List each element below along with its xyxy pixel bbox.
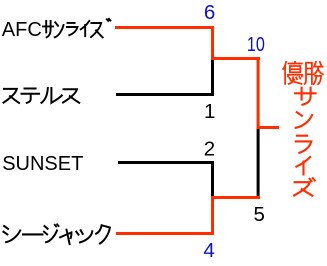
svg-text:10: 10: [247, 33, 265, 56]
svg-text:SUNSET: SUNSET: [2, 153, 83, 175]
svg-text:AFC: AFC: [2, 19, 42, 41]
svg-text:2: 2: [204, 138, 215, 161]
svg-text:1: 1: [204, 100, 215, 123]
svg-text:5: 5: [253, 203, 264, 226]
svg-text:4: 4: [203, 239, 214, 261]
svg-text:6: 6: [204, 1, 215, 24]
